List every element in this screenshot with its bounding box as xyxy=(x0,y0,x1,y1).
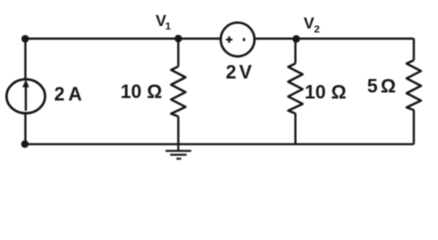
label V1 xyxy=(156,13,172,33)
voltage source minus mark xyxy=(243,38,245,41)
resistor R2 10ohm zigzag xyxy=(288,64,302,114)
node V2 junction dot xyxy=(292,35,300,43)
wire top horizontal xyxy=(25,37,414,39)
node V1 junction dot xyxy=(175,35,183,43)
svg-text:1: 1 xyxy=(165,20,171,32)
resistor R1 10ohm zigzag xyxy=(171,67,185,117)
ground symbol xyxy=(166,144,192,159)
svg-text:2 A: 2 A xyxy=(54,84,82,105)
wire right vertical bottom stub xyxy=(413,110,415,144)
resistor R3 5ohm zigzag xyxy=(407,60,421,110)
wire branch V2 bottom stub xyxy=(294,113,296,144)
wire right vertical top stub xyxy=(413,39,415,61)
current source I1 arrow xyxy=(22,79,29,110)
current source I1 circle xyxy=(7,79,46,113)
svg-text:5 Ω: 5 Ω xyxy=(367,77,395,98)
label V2 xyxy=(304,16,320,36)
svg-text:2: 2 xyxy=(314,24,320,36)
svg-text:10 Ω: 10 Ω xyxy=(120,82,162,103)
wire branch V1 top stub xyxy=(177,39,179,67)
svg-text:2 V: 2 V xyxy=(226,62,252,83)
voltage source plus sign xyxy=(226,36,232,42)
wire branch V2 top stub xyxy=(294,39,296,64)
wire left vertical xyxy=(24,39,26,145)
node dot top-left junction xyxy=(21,35,29,43)
svg-text:10 Ω: 10 Ω xyxy=(305,82,347,103)
node dot bottom-left junction xyxy=(21,140,29,148)
wire bottom horizontal xyxy=(25,143,414,145)
wire branch V1 bottom stub xyxy=(177,116,179,144)
voltage source VS1 circle xyxy=(221,23,255,57)
